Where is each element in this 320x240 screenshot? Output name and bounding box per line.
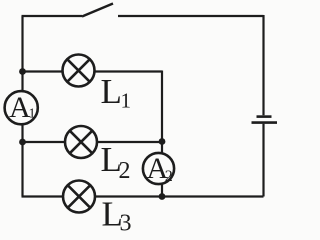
junction node dot (bottom of A2): [159, 193, 166, 200]
ammeter A1: [5, 91, 38, 124]
label L1: [101, 72, 132, 113]
svg-text:2: 2: [165, 168, 173, 185]
junction node dot (left, branch L1): [19, 68, 26, 75]
svg-text:L: L: [101, 72, 122, 111]
wire top-left segment: [22, 15, 83, 17]
lamp L3: [63, 181, 95, 213]
wire branch L2 horizontal: [23, 141, 163, 143]
wire top-right segment: [118, 15, 264, 17]
wire A2 vertical: [161, 142, 163, 197]
junction node dot (top of A2): [159, 138, 166, 145]
lamp L2: [65, 126, 97, 158]
svg-text:1: 1: [29, 107, 36, 122]
label L2: [101, 140, 131, 184]
svg-text:2: 2: [119, 158, 131, 184]
wire right lower: [262, 124, 264, 197]
wire branch L1 horizontal: [23, 70, 163, 72]
battery cell short plate (negative): [257, 115, 272, 118]
svg-text:1: 1: [121, 89, 132, 113]
ammeter A2: [143, 152, 174, 185]
wire bottom: [22, 195, 264, 197]
switch S1 open blade: [82, 4, 113, 17]
wire left vertical: [21, 16, 23, 197]
junction node dot (left, branch L2): [19, 139, 26, 146]
label L3: [102, 194, 132, 236]
wire right upper: [262, 15, 264, 115]
battery cell long plate (positive): [252, 121, 278, 124]
svg-text:3: 3: [120, 211, 132, 233]
wire branch L1 vertical down to node: [161, 71, 163, 142]
lamp L1: [63, 55, 95, 87]
